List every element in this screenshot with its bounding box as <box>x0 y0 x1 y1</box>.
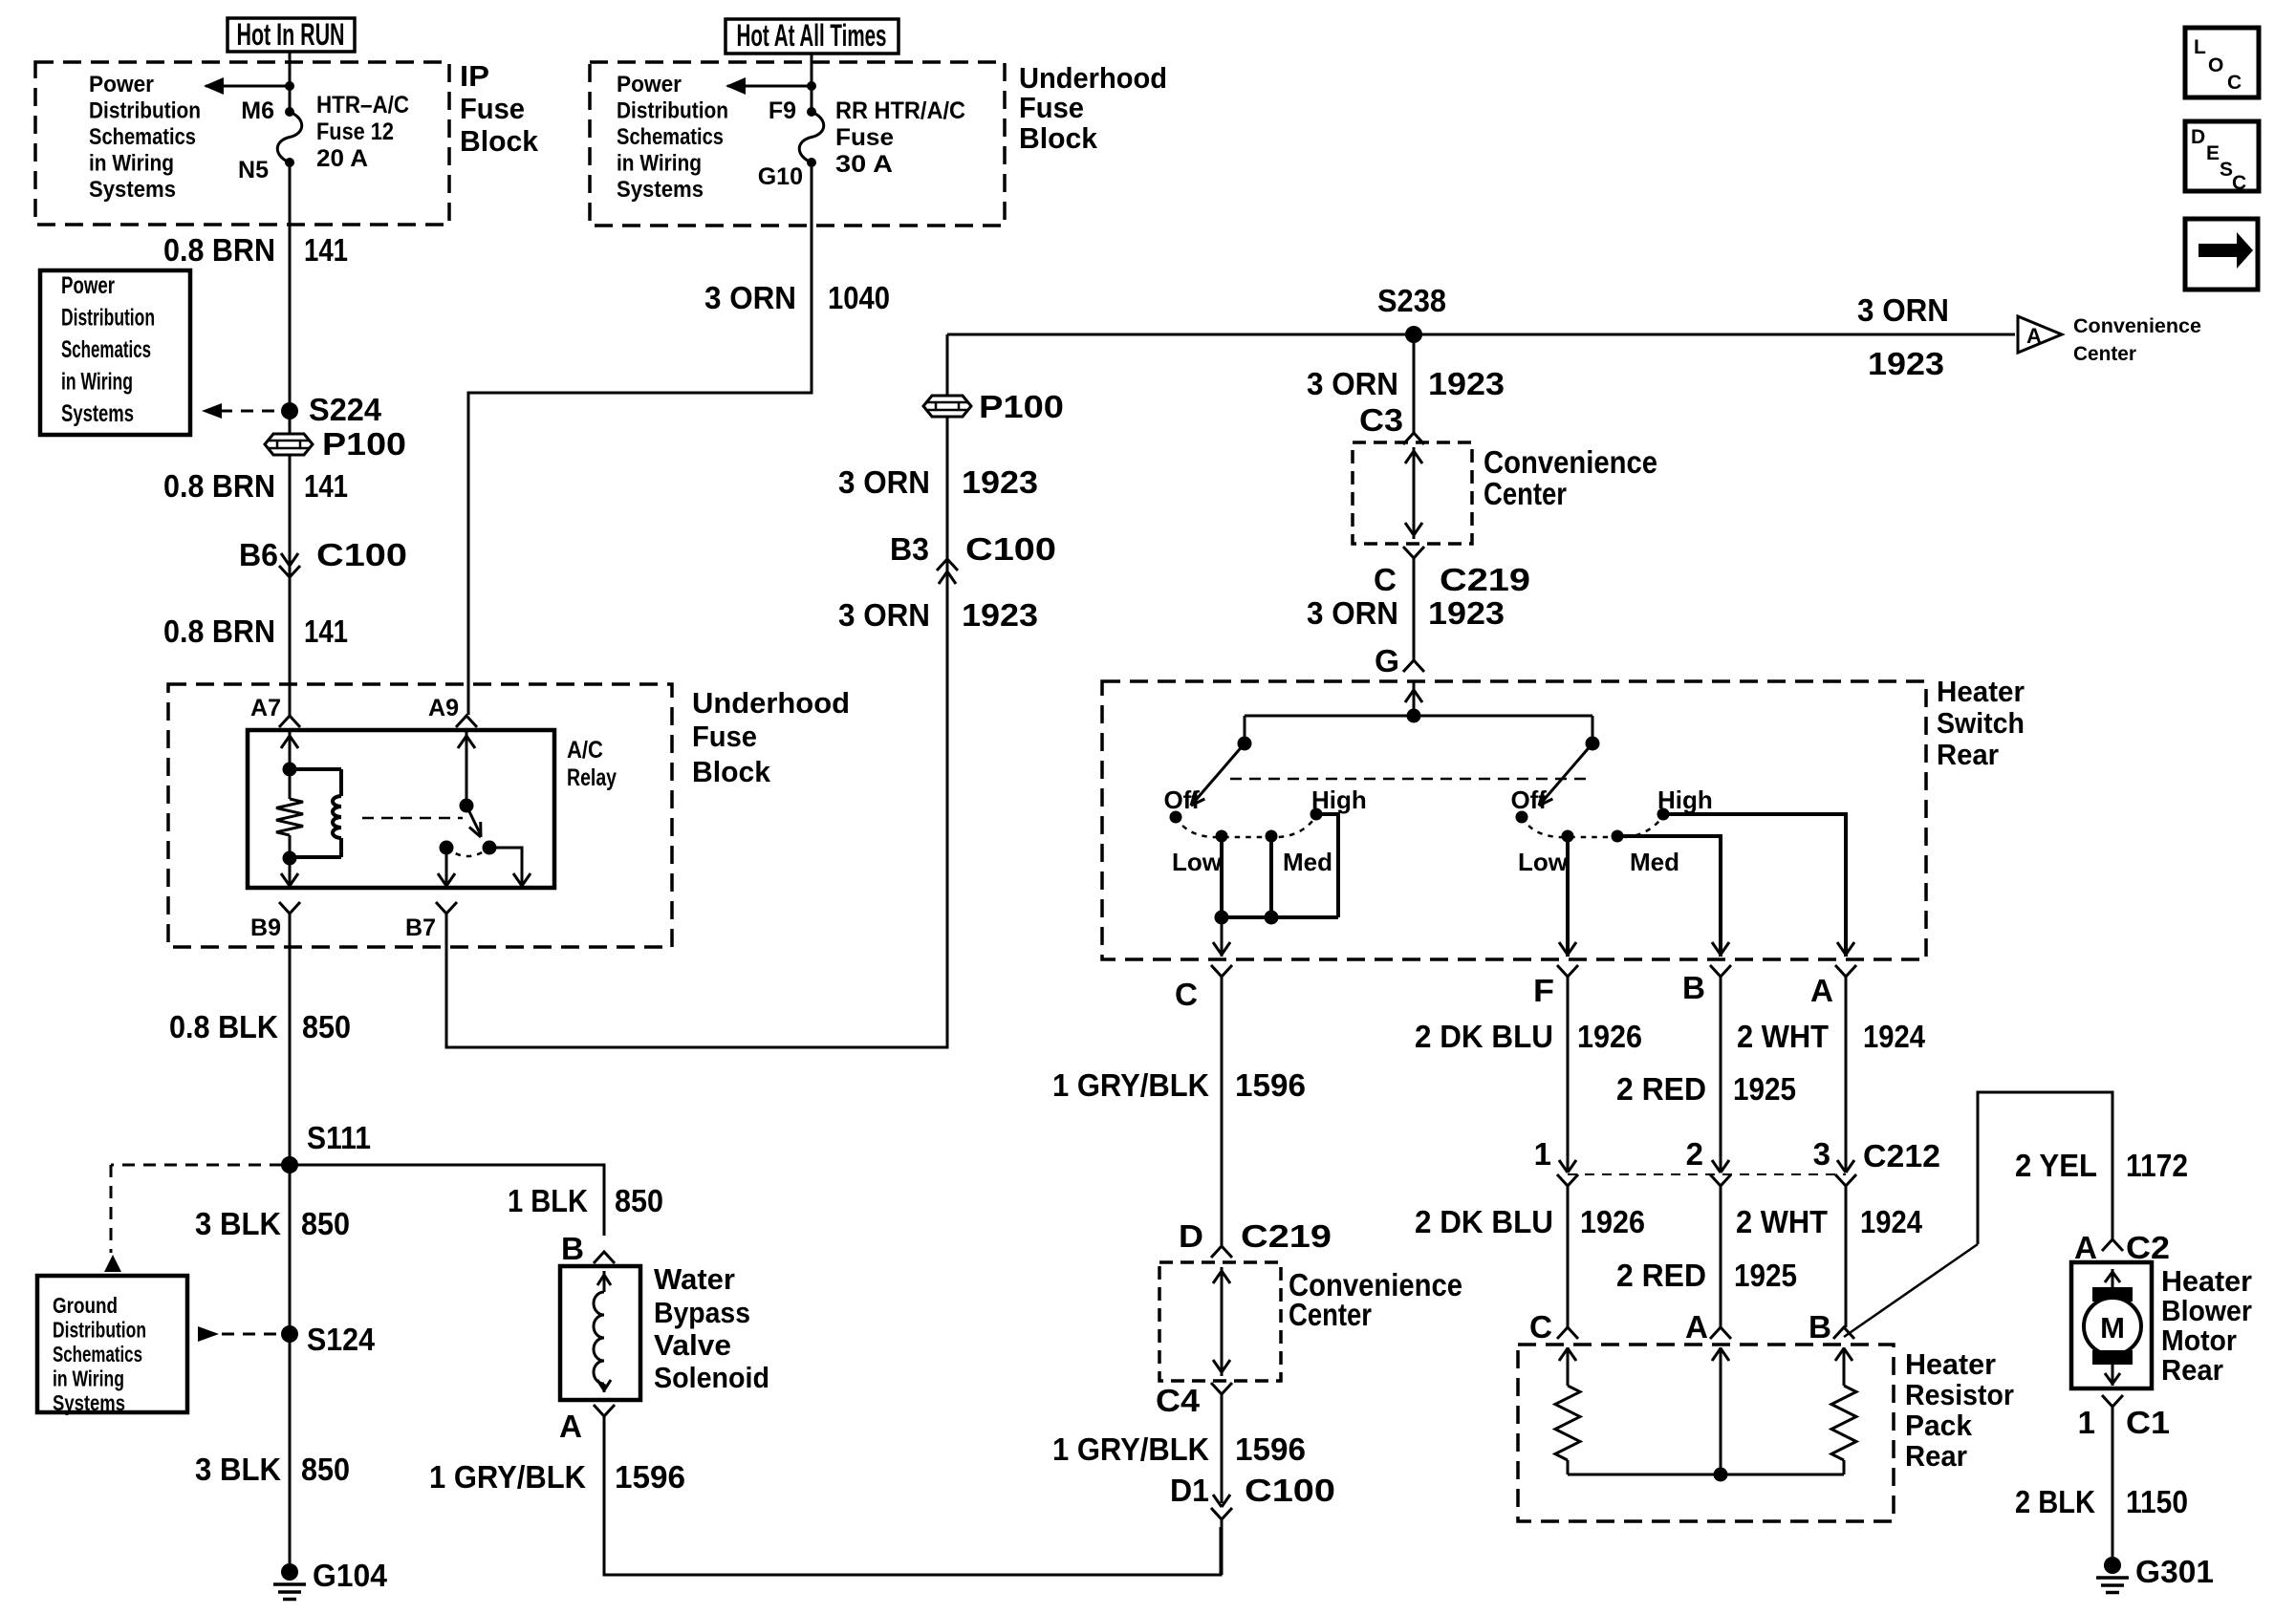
svg-text:1172: 1172 <box>2126 1148 2188 1183</box>
svg-text:2 RED: 2 RED <box>1616 1071 1706 1107</box>
svg-text:RR HTR/A/C: RR HTR/A/C <box>835 97 965 124</box>
svg-text:Fuse: Fuse <box>460 92 525 125</box>
svg-text:S111: S111 <box>307 1120 371 1155</box>
svg-text:A7: A7 <box>250 695 281 721</box>
svg-text:G301: G301 <box>2135 1554 2214 1589</box>
svg-text:P100: P100 <box>979 389 1064 424</box>
svg-text:Schematics: Schematics <box>89 124 196 150</box>
svg-text:B: B <box>561 1231 584 1266</box>
svg-text:Relay: Relay <box>567 764 617 791</box>
svg-text:Heater: Heater <box>2161 1264 2252 1298</box>
svg-text:Switch: Switch <box>1937 706 2025 740</box>
svg-text:Med: Med <box>1283 848 1332 876</box>
svg-text:2: 2 <box>1686 1136 1703 1172</box>
svg-text:Power: Power <box>61 272 115 299</box>
svg-text:1923: 1923 <box>1428 595 1505 631</box>
svg-text:Systems: Systems <box>61 400 134 427</box>
svg-text:1: 1 <box>2078 1405 2095 1440</box>
svg-text:Systems: Systems <box>617 177 704 203</box>
svg-text:Center: Center <box>2073 343 2136 365</box>
svg-text:0.8 BLK: 0.8 BLK <box>169 1009 278 1044</box>
svg-text:HTR–A/C: HTR–A/C <box>316 92 409 118</box>
svg-text:A: A <box>2026 324 2042 348</box>
svg-text:B: B <box>1809 1309 1831 1345</box>
svg-text:C: C <box>1374 562 1397 597</box>
svg-text:141: 141 <box>304 468 348 504</box>
svg-text:3 ORN: 3 ORN <box>704 280 796 315</box>
svg-text:C: C <box>2227 72 2242 94</box>
svg-text:Rear: Rear <box>1937 738 1999 771</box>
svg-text:1596: 1596 <box>1235 1067 1306 1103</box>
svg-text:S: S <box>2220 159 2233 181</box>
svg-text:F9: F9 <box>769 97 796 124</box>
svg-text:1924: 1924 <box>1863 1019 1926 1054</box>
svg-text:in Wiring: in Wiring <box>89 151 174 177</box>
svg-text:1596: 1596 <box>615 1459 685 1495</box>
svg-text:Rear: Rear <box>1905 1439 1967 1473</box>
svg-text:3 ORN: 3 ORN <box>1307 366 1398 401</box>
svg-text:Hot At All Times: Hot At All Times <box>737 18 887 53</box>
svg-text:Distribution: Distribution <box>61 305 155 332</box>
svg-text:E: E <box>2206 142 2220 164</box>
svg-text:3 ORN: 3 ORN <box>1307 595 1398 631</box>
svg-text:3 ORN: 3 ORN <box>838 464 930 500</box>
svg-text:in Wiring: in Wiring <box>61 369 133 396</box>
svg-text:P100: P100 <box>322 426 406 462</box>
svg-text:Power: Power <box>617 72 682 97</box>
svg-text:1926: 1926 <box>1577 1019 1642 1054</box>
svg-text:A9: A9 <box>428 695 459 721</box>
svg-text:20 A: 20 A <box>316 145 368 172</box>
svg-text:Low: Low <box>1518 848 1569 876</box>
svg-text:D: D <box>2191 126 2205 148</box>
svg-text:S238: S238 <box>1377 283 1446 318</box>
svg-text:Fuse 12: Fuse 12 <box>316 118 394 145</box>
svg-text:1 GRY/BLK: 1 GRY/BLK <box>1052 1067 1209 1103</box>
svg-text:C: C <box>1175 977 1198 1012</box>
svg-text:Off: Off <box>1163 785 1200 814</box>
svg-text:0.8 BRN: 0.8 BRN <box>163 232 275 268</box>
svg-text:L: L <box>2194 36 2206 58</box>
svg-text:3: 3 <box>1813 1136 1830 1172</box>
svg-text:1 GRY/BLK: 1 GRY/BLK <box>1052 1431 1209 1467</box>
svg-text:3 BLK: 3 BLK <box>195 1452 281 1487</box>
svg-text:G10: G10 <box>758 163 803 190</box>
svg-text:Solenoid: Solenoid <box>654 1361 769 1394</box>
svg-text:Underhood: Underhood <box>1019 61 1167 95</box>
svg-text:in Wiring: in Wiring <box>53 1367 124 1391</box>
svg-text:C2: C2 <box>2126 1230 2170 1265</box>
svg-text:A: A <box>559 1409 582 1444</box>
svg-text:Block: Block <box>692 755 771 788</box>
svg-text:C1: C1 <box>2126 1405 2170 1440</box>
svg-text:Fuse: Fuse <box>692 720 757 753</box>
svg-text:B9: B9 <box>250 915 281 941</box>
svg-text:Low: Low <box>1172 848 1223 876</box>
svg-text:A: A <box>1810 973 1833 1008</box>
svg-text:Water: Water <box>654 1262 735 1296</box>
svg-text:Systems: Systems <box>53 1390 125 1415</box>
svg-text:Systems: Systems <box>89 177 176 203</box>
svg-text:1924: 1924 <box>1860 1204 1923 1239</box>
svg-text:C100: C100 <box>1245 1473 1335 1508</box>
svg-text:Heater: Heater <box>1905 1347 1996 1381</box>
svg-text:B7: B7 <box>405 915 436 941</box>
svg-text:M: M <box>2100 1311 2125 1345</box>
svg-text:1925: 1925 <box>1734 1258 1797 1293</box>
svg-text:850: 850 <box>615 1183 663 1218</box>
svg-text:S224: S224 <box>309 392 382 427</box>
svg-text:Off: Off <box>1510 785 1547 814</box>
svg-text:B6: B6 <box>239 537 278 572</box>
svg-text:2 BLK: 2 BLK <box>2015 1484 2095 1519</box>
svg-text:2 DK BLU: 2 DK BLU <box>1415 1019 1553 1054</box>
svg-text:Motor: Motor <box>2161 1323 2237 1357</box>
svg-text:Med: Med <box>1630 848 1679 876</box>
svg-text:A: A <box>1685 1309 1708 1345</box>
svg-text:C3: C3 <box>1359 402 1403 438</box>
svg-text:Convenience: Convenience <box>1484 444 1657 480</box>
svg-text:Center: Center <box>1289 1297 1372 1332</box>
svg-text:1040: 1040 <box>828 280 890 315</box>
svg-text:C: C <box>2232 172 2246 194</box>
svg-text:Center: Center <box>1484 476 1567 511</box>
svg-text:High: High <box>1311 785 1367 814</box>
svg-text:30 A: 30 A <box>835 151 893 178</box>
svg-text:1: 1 <box>1534 1136 1551 1172</box>
svg-text:1923: 1923 <box>1428 366 1505 401</box>
svg-text:141: 141 <box>304 232 348 268</box>
svg-text:1923: 1923 <box>962 597 1038 633</box>
svg-text:141: 141 <box>304 613 348 649</box>
svg-text:D: D <box>1179 1218 1203 1254</box>
svg-text:M6: M6 <box>241 97 274 124</box>
svg-text:Rear: Rear <box>2161 1353 2223 1387</box>
svg-text:A/C: A/C <box>567 737 603 764</box>
svg-text:Power: Power <box>89 72 154 97</box>
svg-text:Block: Block <box>460 124 539 158</box>
svg-text:C100: C100 <box>316 537 407 572</box>
svg-text:Heater: Heater <box>1937 675 2025 708</box>
svg-text:High: High <box>1657 785 1713 814</box>
svg-text:850: 850 <box>301 1206 350 1241</box>
svg-text:1 GRY/BLK: 1 GRY/BLK <box>429 1459 586 1495</box>
svg-text:2 RED: 2 RED <box>1616 1258 1706 1293</box>
svg-text:850: 850 <box>302 1009 351 1044</box>
svg-text:1596: 1596 <box>1235 1431 1306 1467</box>
svg-text:0.8 BRN: 0.8 BRN <box>163 613 275 649</box>
svg-text:1150: 1150 <box>2126 1484 2188 1519</box>
svg-text:Distribution: Distribution <box>53 1318 146 1343</box>
svg-text:Bypass: Bypass <box>654 1296 750 1329</box>
svg-text:2 YEL: 2 YEL <box>2015 1148 2097 1183</box>
svg-text:Pack: Pack <box>1905 1409 1973 1442</box>
svg-text:Fuse: Fuse <box>835 124 894 151</box>
svg-text:850: 850 <box>301 1452 350 1487</box>
svg-text:Block: Block <box>1019 121 1098 155</box>
svg-text:Valve: Valve <box>654 1328 731 1362</box>
svg-text:C219: C219 <box>1241 1218 1332 1254</box>
svg-text:Resistor: Resistor <box>1905 1378 2014 1411</box>
svg-text:Distribution: Distribution <box>617 98 728 124</box>
svg-text:N5: N5 <box>238 157 269 183</box>
svg-text:B3: B3 <box>890 531 929 567</box>
svg-text:2 WHT: 2 WHT <box>1736 1204 1828 1239</box>
svg-text:Schematics: Schematics <box>617 124 724 150</box>
svg-text:G104: G104 <box>313 1558 388 1593</box>
svg-text:1923: 1923 <box>1868 346 1944 381</box>
svg-text:1923: 1923 <box>962 464 1038 500</box>
svg-text:in Wiring: in Wiring <box>617 151 702 177</box>
svg-text:2 WHT: 2 WHT <box>1737 1019 1829 1054</box>
svg-text:C4: C4 <box>1156 1383 1201 1418</box>
svg-text:F: F <box>1533 973 1554 1008</box>
svg-text:Schematics: Schematics <box>61 336 151 363</box>
svg-text:1 BLK: 1 BLK <box>508 1183 588 1218</box>
svg-text:O: O <box>2208 54 2223 76</box>
svg-text:C: C <box>1529 1309 1552 1345</box>
svg-text:1925: 1925 <box>1733 1071 1796 1107</box>
svg-text:A: A <box>2074 1230 2097 1265</box>
svg-text:IP: IP <box>460 59 489 93</box>
svg-text:S124: S124 <box>307 1322 376 1357</box>
svg-text:Convenience: Convenience <box>2073 315 2201 337</box>
svg-text:Ground: Ground <box>53 1293 118 1318</box>
svg-text:0.8 BRN: 0.8 BRN <box>163 468 275 504</box>
svg-text:Distribution: Distribution <box>89 98 201 124</box>
svg-text:1926: 1926 <box>1580 1204 1645 1239</box>
svg-text:B: B <box>1682 970 1705 1005</box>
svg-text:2 DK BLU: 2 DK BLU <box>1415 1204 1553 1239</box>
svg-text:3 ORN: 3 ORN <box>838 597 930 633</box>
svg-text:C100: C100 <box>965 531 1056 567</box>
svg-text:D1: D1 <box>1170 1473 1209 1508</box>
svg-text:Hot In RUN: Hot In RUN <box>237 17 345 52</box>
svg-text:C219: C219 <box>1440 562 1530 597</box>
svg-text:3 BLK: 3 BLK <box>195 1206 281 1241</box>
svg-text:Fuse: Fuse <box>1019 91 1084 124</box>
svg-text:Underhood: Underhood <box>692 686 850 720</box>
svg-text:C212: C212 <box>1863 1138 1940 1173</box>
svg-text:G: G <box>1375 643 1399 678</box>
svg-text:3 ORN: 3 ORN <box>1857 292 1949 328</box>
svg-text:Schematics: Schematics <box>53 1342 142 1367</box>
svg-text:Blower: Blower <box>2161 1294 2252 1327</box>
